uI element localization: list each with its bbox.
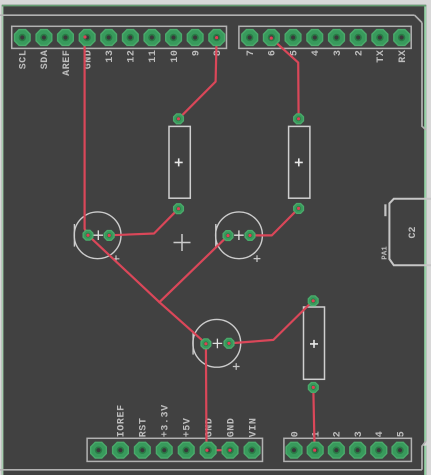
window frame corner notch at lower right [423,441,427,446]
node dot C5 left [226,234,229,237]
svg-text:5: 5 [396,431,407,438]
pad C1 top [174,114,184,124]
capacitor C4 plus mark [113,255,120,262]
pad J1-SDA [36,30,52,46]
header J4 outline (analog) [284,438,412,461]
wire C1 bottom pad to C4 right pad [109,209,178,236]
pad J1-13 [101,30,117,46]
wire pin 6 to C2 top pad [271,38,298,118]
node dot C2 bottom [297,207,300,210]
pad J1-AREF [58,30,74,46]
connector PA1 pin tick [384,204,386,216]
svg-text:7: 7 [246,49,257,56]
svg-text:PA1: PA1 [382,246,390,260]
svg-text:RX: RX [398,49,409,62]
pad J2-2 [350,30,366,46]
wire pin 8 to C1 top pad [179,38,217,119]
pad C2 bottom [294,204,304,214]
board outline right edge upper segment [422,23,426,130]
node dot J1 GND [83,35,86,38]
window frame right band [426,0,431,475]
pad J1-11 [144,30,160,46]
pad C6 left [201,339,211,349]
pad J3-NC [91,442,107,458]
capacitor C4 origin cross [94,230,104,240]
canvas origin crosshair [174,234,191,251]
capacitor C1 polarity plus mark [175,158,183,166]
capacitor C5 origin cross [234,230,244,240]
window frame top bar [0,0,431,5]
pad J1-SCL [15,30,31,46]
wire node V to C6 left pad [159,302,206,343]
pad J2-RX [394,30,410,46]
svg-text:+5V: +5V [183,417,194,437]
pad J4-A3 [350,442,366,458]
window frame left sliver [0,0,2,475]
svg-text:3: 3 [333,49,344,56]
pad J2-4 [307,30,323,46]
pad J3-IOREF [113,442,129,458]
svg-text:13: 13 [105,49,116,62]
pad J3-+3.3V [156,442,172,458]
pad J4-A2 [329,442,345,458]
green border top [2,5,426,7]
pad C1 bottom [174,204,184,214]
pad J4-A0 [286,442,302,458]
node dot C4 right [108,234,111,237]
capacitor C6 circular body outline [193,319,241,367]
capacitor C3 body outline [304,307,325,379]
node dot C6 right [227,342,230,345]
green border left [2,6,4,475]
pad J4-A5 [392,442,408,458]
svg-text:TX: TX [376,49,387,62]
wire GND to GND jumper [207,449,230,451]
pad C5 left [223,231,233,241]
svg-text:C2: C2 [408,226,419,238]
svg-text:2: 2 [333,431,344,438]
pad C4 right [104,231,114,241]
green border right [424,6,426,475]
capacitor C6 flat polarity chord [192,332,194,355]
svg-text:8: 8 [213,49,224,56]
svg-text:10: 10 [170,49,181,62]
pad J2-7 [242,30,258,46]
capacitor C1 body outline [169,126,190,198]
svg-text:2: 2 [355,49,366,56]
capacitor C2 body outline [289,126,310,198]
board outline right edge lower segment [422,441,426,470]
node dot C4 left [86,234,89,237]
svg-text:SDA: SDA [40,49,51,69]
svg-text:SCL: SCL [19,49,30,69]
board outline top-right chamfer [415,15,422,22]
pad J4-A1 [307,442,323,458]
capacitor C6 plus mark [233,363,240,370]
pad C4 left [83,230,93,240]
svg-text:0: 0 [290,431,301,438]
pad J2-TX [372,30,388,46]
header J2 outline (digital 0-7) [239,26,411,48]
header J1 outline (digital 8-13) [12,26,227,48]
capacitor C2 polarity plus mark [295,158,303,166]
pad J3-RST [135,442,151,458]
node dot J3 GND1 [205,449,208,452]
wire C6 left pad to GND pin [205,344,208,450]
svg-text:6: 6 [268,49,279,56]
capacitor C4 flat polarity chord [73,224,75,247]
board outline top edge [0,14,415,16]
node dot J1 pin8 [215,36,218,39]
pad C2 top [294,114,304,124]
svg-text:4: 4 [375,431,386,438]
wire C5 left pad to node V [159,236,228,303]
pad J3-VIN [244,442,260,458]
pad J3-GND [200,442,216,458]
node dot C3 top [312,299,315,302]
pad C5 right [245,231,255,241]
pad C6 right [224,338,234,348]
pad J4-A4 [371,442,387,458]
node dot C2 top [297,117,300,120]
capacitor C5 plus mark [254,255,261,262]
pad J2-3 [329,30,345,46]
svg-text:VIN: VIN [248,417,259,437]
pad J1-8 [209,30,225,46]
svg-text:+3.3V: +3.3V [161,404,172,437]
svg-text:IOREF: IOREF [117,404,128,437]
svg-text:4: 4 [311,49,322,56]
capacitor C3 polarity plus mark [310,340,318,348]
pad C3 top [308,296,318,306]
svg-text:9: 9 [191,49,202,56]
capacitor C6 origin cross [213,339,223,349]
node dot C3 bottom [312,386,315,389]
capacitor C5 circular body outline [216,212,263,259]
svg-text:3: 3 [354,431,365,438]
pad J2-6 [264,30,280,46]
pad J2-5 [285,30,301,46]
svg-text:11: 11 [148,49,159,62]
pad J3-+5V [178,442,194,458]
node dot J3 GND2 [228,449,231,452]
capacitor C5 flat polarity chord [215,224,217,247]
wire C4 left pad to node V [88,235,159,302]
connector PA1 body outline [389,199,431,265]
wire GND to C4 left pad [85,38,88,235]
node dot C1 bottom [177,207,180,210]
node dot C1 top [177,117,180,120]
capacitor C4 circular body outline [74,212,121,259]
header J3 outline (power) [87,438,262,461]
pad J1-GND [79,30,95,46]
svg-text:AREF: AREF [62,49,73,75]
pad J3-GND [222,442,238,458]
node dot C5 right [248,234,251,237]
node dot C6 left [204,342,207,345]
wire C2 bottom pad to C5 right pad [250,208,299,235]
node dot J2 pin6 [270,37,273,40]
pad J1-10 [166,30,182,46]
wire C6 right pad to C3 top pad [229,301,313,344]
node dot J4 A1 [313,449,316,452]
pad J1-9 [187,30,203,46]
wire C3 bottom pad to analog pin 1 [313,387,314,450]
pad C3 bottom [308,383,318,393]
svg-text:GND: GND [226,417,237,437]
svg-text:12: 12 [127,49,138,62]
board outline bottom edge [0,469,422,471]
pad J1-12 [123,30,139,46]
svg-text:RST: RST [139,417,150,437]
